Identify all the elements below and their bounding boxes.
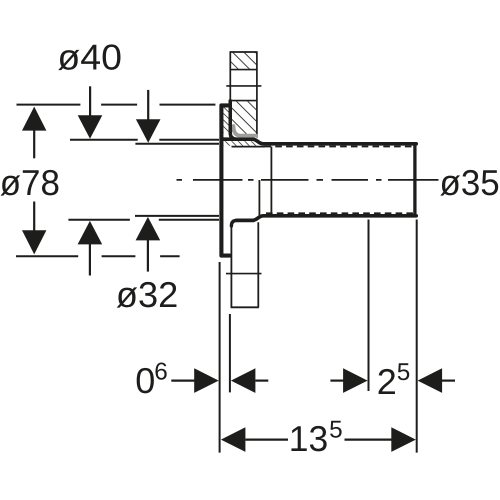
svg-text:ø40: ø40 <box>57 37 122 78</box>
svg-text:13: 13 <box>289 418 329 459</box>
centerline <box>177 179 439 181</box>
svg-text:ø78: ø78 <box>0 162 60 203</box>
extension row C bottom (diam 32 bottom) <box>135 215 219 217</box>
hatch region A: bolt section upper band <box>230 52 257 69</box>
break line top <box>226 85 261 87</box>
diam 32 dimension arrows <box>147 90 149 120</box>
svg-text:5: 5 <box>397 359 411 386</box>
13.5 dimension line and arrows <box>221 427 246 452</box>
pipe bore top inner line (solid then dashed) <box>232 146 266 148</box>
hatch boundary line y=100.6 <box>230 100 257 102</box>
bottom extension verticals <box>219 262 221 453</box>
extension row A bottom (diam 78 bottom) <box>16 255 180 257</box>
svg-text:ø32: ø32 <box>116 274 178 315</box>
sleeve top outline and pipe top <box>222 139 417 144</box>
0.6 dimension arrows <box>171 380 195 382</box>
bolt section rectangle <box>230 52 258 138</box>
flange plate C-profile <box>221 105 229 255</box>
svg-text:ø35: ø35 <box>440 162 500 203</box>
extension row B bottom (diam 40 bottom) <box>68 219 219 221</box>
bore vertical: pipe end x=271.4 <box>270 147 272 215</box>
hatch channel: rubber between plate and sleeve <box>223 108 228 134</box>
svg-text:6: 6 <box>154 359 168 386</box>
svg-text:0: 0 <box>135 360 155 401</box>
svg-text:5: 5 <box>329 417 343 444</box>
inner L: plate hole edge <box>230 101 236 139</box>
extension row B top (diam 40 top) <box>70 139 219 141</box>
pipe right end face <box>413 142 416 217</box>
hatch boundary line y=69.6 <box>230 69 257 71</box>
extension row A top (diam 78 top) <box>17 104 216 106</box>
sleeve bottom outline and pipe bottom <box>237 216 417 221</box>
gray seal band <box>234 126 257 136</box>
sleeve bottom corner into socket box <box>231 220 236 226</box>
diam 40 dimension arrows <box>89 86 91 116</box>
bore vertical: x=259.4 lower half <box>258 180 260 218</box>
hatch region B: flange/sleeve section <box>230 101 257 134</box>
pipe bore bottom inner dashed line <box>266 212 414 214</box>
break line bottom <box>226 273 262 275</box>
hatch band C: sleeve lip above pipe bore <box>223 141 260 146</box>
diam 78 dimension arrows <box>33 130 35 158</box>
extension row C top (diam 32 top) <box>135 143 219 145</box>
2.5 dimension arrows <box>330 380 344 382</box>
svg-text:2: 2 <box>377 361 397 402</box>
socket box below pipe <box>231 222 259 307</box>
